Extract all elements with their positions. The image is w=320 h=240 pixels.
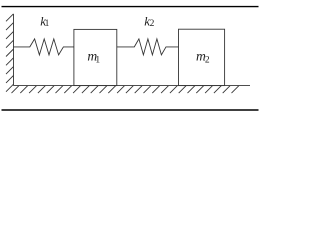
svg-text:2: 2 [205, 55, 210, 65]
svg-text:1: 1 [95, 55, 100, 65]
svg-text:2: 2 [150, 19, 155, 29]
svg-text:1: 1 [45, 19, 50, 29]
